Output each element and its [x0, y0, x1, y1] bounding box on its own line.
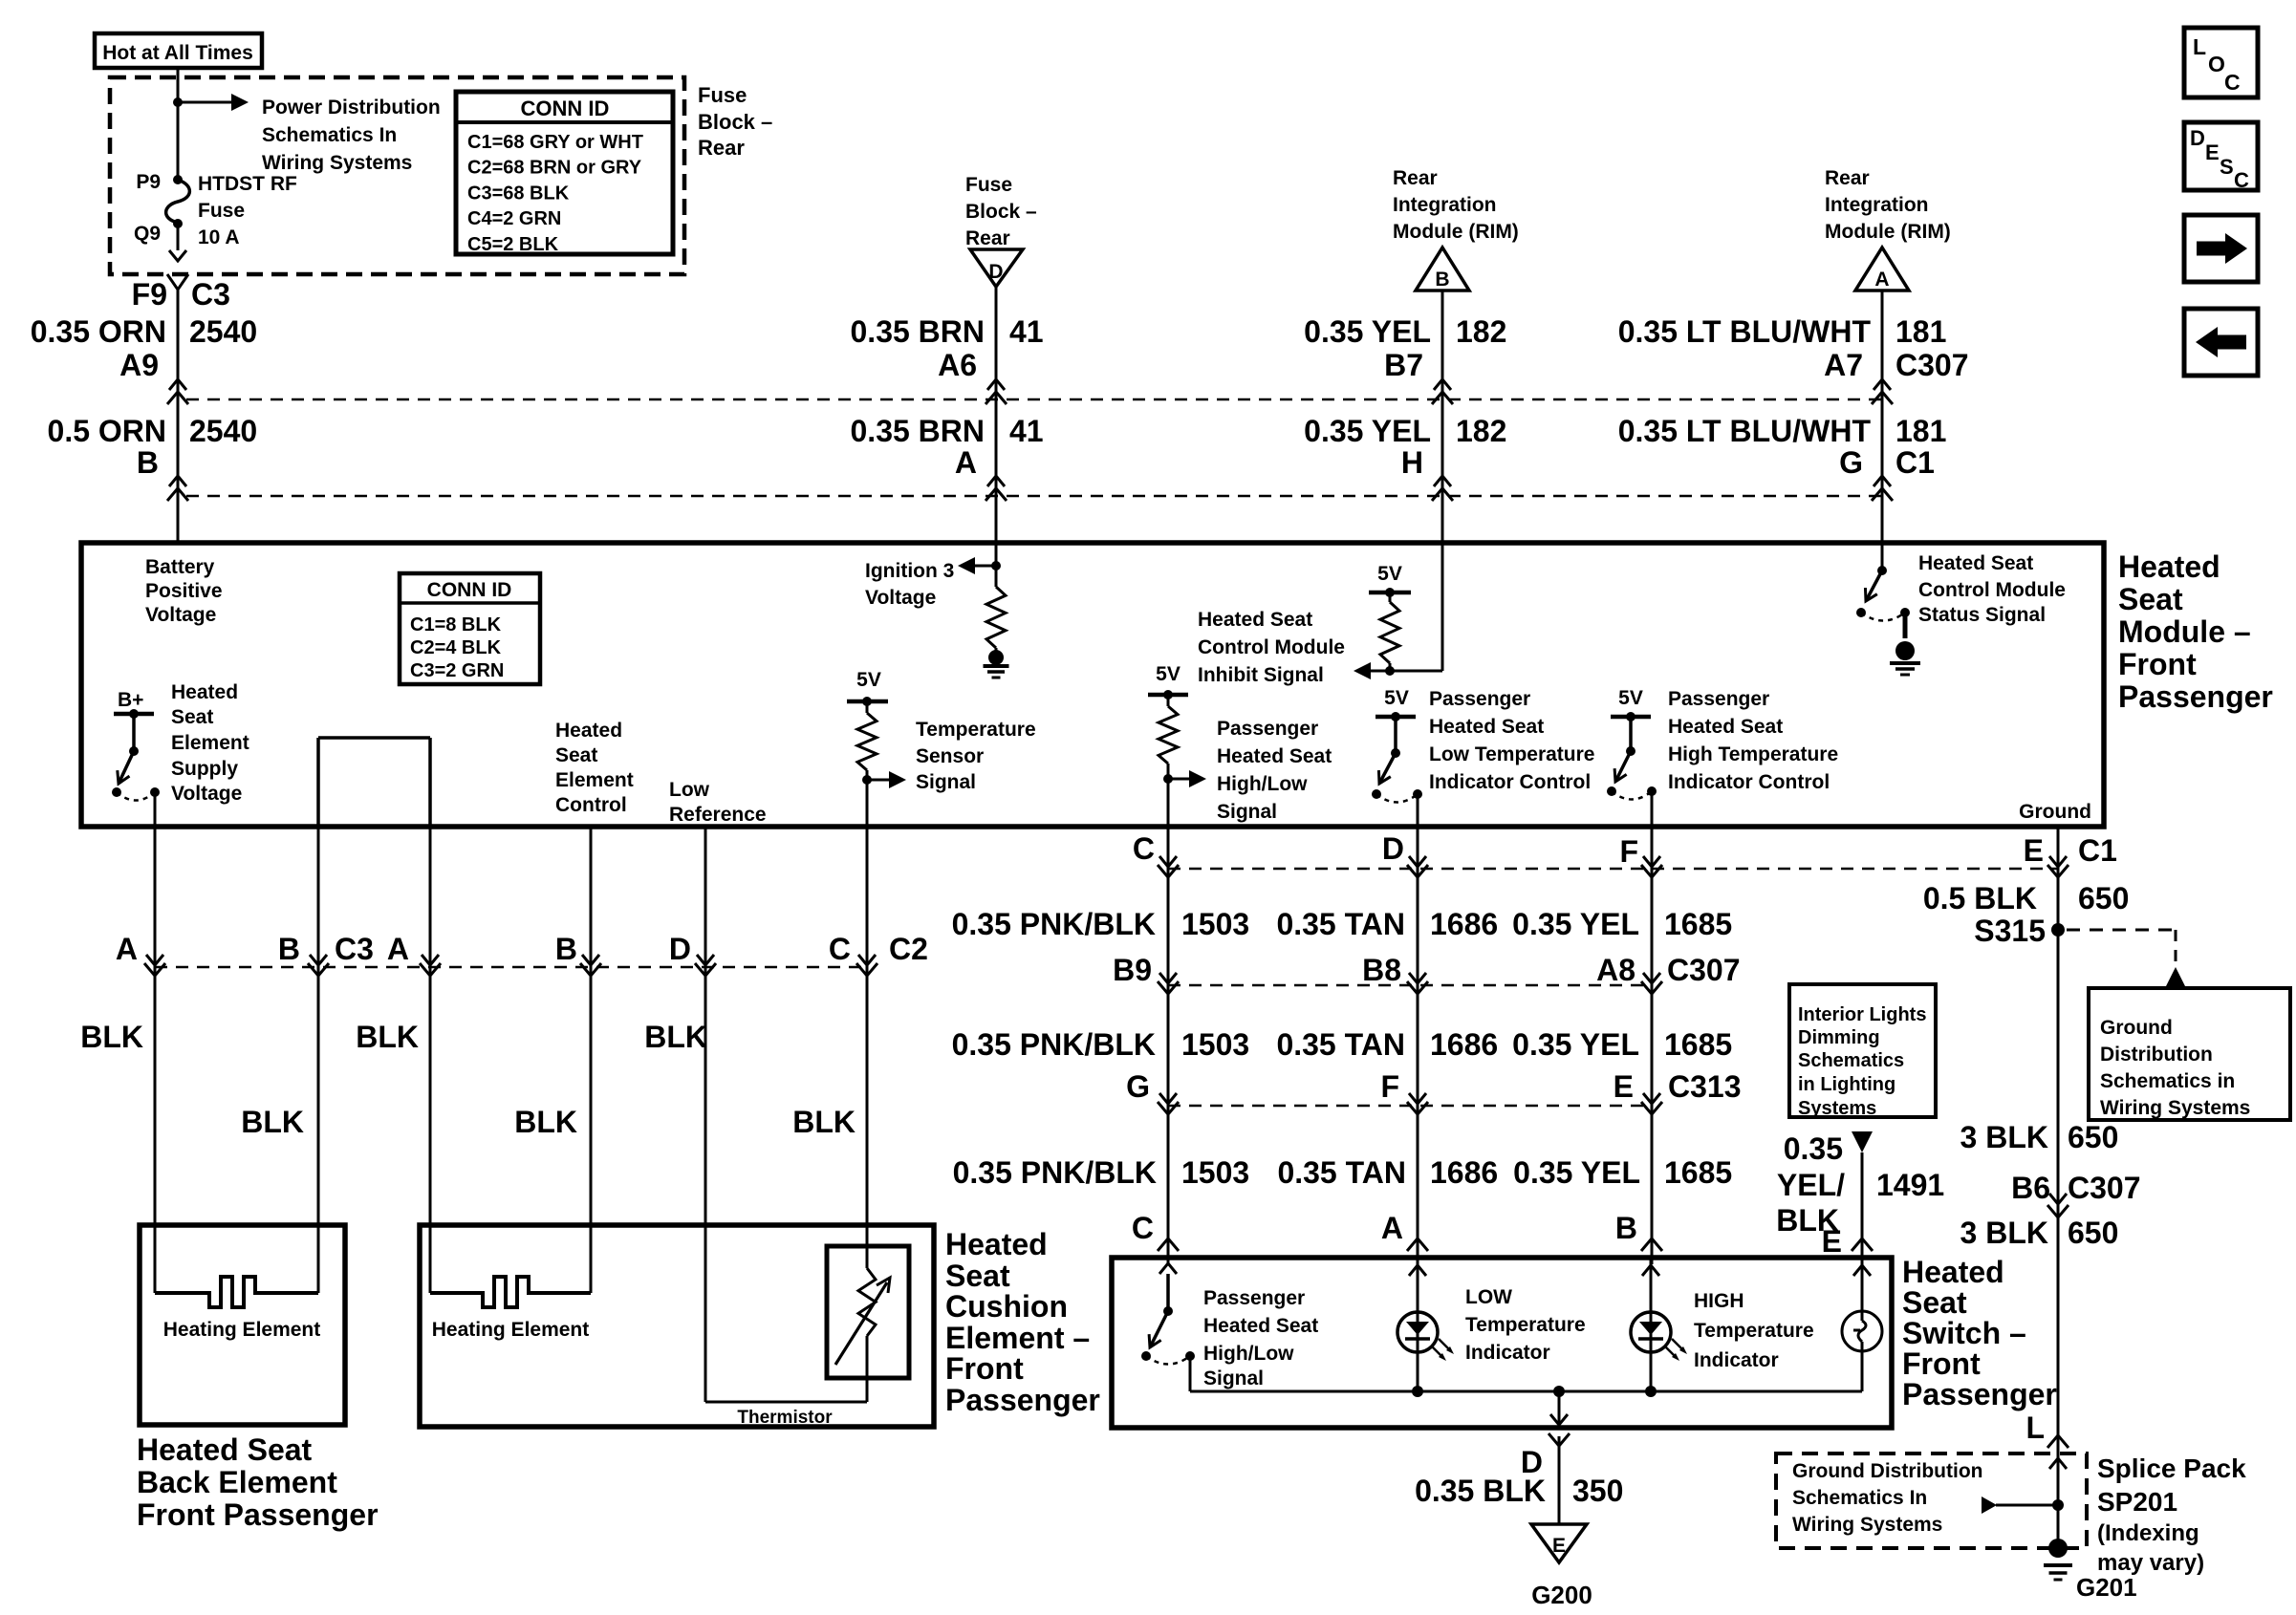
- svg-text:HIGH: HIGH: [1694, 1290, 1744, 1312]
- svg-text:(Indexing: (Indexing: [2097, 1520, 2199, 1546]
- svg-text:B9: B9: [1113, 953, 1152, 987]
- svg-text:Cushion: Cushion: [945, 1289, 1068, 1324]
- svg-text:Temperature: Temperature: [1465, 1314, 1586, 1336]
- svg-text:Rear: Rear: [1393, 167, 1438, 189]
- svg-text:C: C: [2224, 70, 2241, 95]
- svg-text:Inhibit Signal: Inhibit Signal: [1198, 664, 1324, 686]
- svg-text:0.35 LT BLU/WHT: 0.35 LT BLU/WHT: [1618, 314, 1872, 349]
- svg-text:BLK: BLK: [514, 1105, 577, 1139]
- svg-text:Heated Seat: Heated Seat: [1918, 552, 2033, 574]
- svg-text:1503: 1503: [1181, 907, 1249, 941]
- svg-text:G: G: [1839, 445, 1863, 480]
- svg-text:0.35 TAN: 0.35 TAN: [1276, 1027, 1405, 1062]
- svg-text:41: 41: [1009, 314, 1044, 349]
- svg-text:Temperature: Temperature: [916, 719, 1036, 741]
- svg-text:Fuse: Fuse: [698, 83, 747, 107]
- svg-text:Interior Lights: Interior Lights: [1798, 1004, 1926, 1025]
- svg-text:Heating Element: Heating Element: [432, 1319, 590, 1341]
- svg-text:Control Module: Control Module: [1198, 636, 1345, 658]
- svg-text:0.35 TAN: 0.35 TAN: [1276, 907, 1405, 941]
- svg-text:Signal: Signal: [916, 771, 976, 793]
- svg-text:182: 182: [1456, 314, 1506, 349]
- svg-text:5V: 5V: [856, 669, 881, 691]
- svg-text:Ignition 3: Ignition 3: [865, 560, 954, 582]
- svg-text:Voltage: Voltage: [145, 604, 216, 626]
- svg-text:Seat: Seat: [171, 706, 213, 728]
- svg-text:SP201: SP201: [2097, 1487, 2177, 1517]
- svg-text:BLK: BLK: [644, 1020, 707, 1054]
- svg-text:A9: A9: [119, 348, 159, 382]
- svg-text:Indicator: Indicator: [1465, 1342, 1550, 1364]
- svg-text:C3=68 BLK: C3=68 BLK: [467, 183, 570, 204]
- svg-text:5V: 5V: [1618, 687, 1643, 709]
- svg-text:Front: Front: [945, 1351, 1024, 1386]
- svg-text:0.35 YEL: 0.35 YEL: [1304, 314, 1431, 349]
- svg-text:Ground Distribution: Ground Distribution: [1792, 1460, 1982, 1482]
- svg-text:Schematics In: Schematics In: [262, 124, 397, 146]
- svg-text:High Temperature: High Temperature: [1668, 743, 1838, 765]
- svg-text:Distribution: Distribution: [2100, 1044, 2213, 1066]
- svg-text:Indicator Control: Indicator Control: [1668, 771, 1830, 793]
- svg-text:Low Temperature: Low Temperature: [1429, 743, 1594, 765]
- svg-text:B: B: [137, 445, 159, 480]
- svg-text:41: 41: [1009, 414, 1044, 448]
- svg-text:LOW: LOW: [1465, 1286, 1512, 1308]
- svg-text:Seat: Seat: [945, 1259, 1010, 1293]
- svg-text:CONN ID: CONN ID: [427, 579, 512, 601]
- svg-text:C: C: [2234, 168, 2249, 192]
- svg-text:0.35 BRN: 0.35 BRN: [851, 414, 986, 448]
- svg-text:Front: Front: [2118, 647, 2197, 681]
- svg-text:Switch –: Switch –: [1902, 1316, 2026, 1350]
- svg-text:Element: Element: [555, 769, 634, 791]
- svg-text:High/Low: High/Low: [1217, 773, 1308, 795]
- svg-text:High/Low: High/Low: [1203, 1343, 1294, 1365]
- svg-text:Voltage: Voltage: [865, 587, 936, 609]
- svg-text:B: B: [555, 932, 577, 966]
- svg-text:D: D: [988, 261, 1003, 283]
- svg-text:B: B: [1615, 1211, 1637, 1245]
- svg-text:350: 350: [1572, 1474, 1623, 1508]
- svg-text:B6: B6: [2011, 1171, 2050, 1205]
- svg-text:5V: 5V: [1384, 687, 1409, 709]
- svg-text:0.5 BLK: 0.5 BLK: [1923, 881, 2037, 915]
- svg-text:C: C: [1133, 831, 1155, 866]
- svg-text:A: A: [116, 932, 138, 966]
- svg-text:Sensor: Sensor: [916, 745, 984, 767]
- svg-text:E: E: [1552, 1535, 1566, 1557]
- svg-text:0.35 BRN: 0.35 BRN: [851, 314, 986, 349]
- svg-text:Heated: Heated: [555, 720, 622, 742]
- svg-text:182: 182: [1456, 414, 1506, 448]
- svg-text:0.35 BLK: 0.35 BLK: [1415, 1474, 1546, 1508]
- svg-text:Battery: Battery: [145, 556, 215, 578]
- svg-text:C313: C313: [1668, 1069, 1742, 1104]
- svg-text:Positive: Positive: [145, 580, 223, 602]
- svg-text:10 A: 10 A: [198, 226, 240, 248]
- svg-text:BLK: BLK: [80, 1020, 143, 1054]
- svg-text:Heated Seat: Heated Seat: [1203, 1315, 1318, 1337]
- svg-text:Systems: Systems: [1798, 1098, 1876, 1119]
- svg-text:3 BLK: 3 BLK: [1960, 1216, 2048, 1250]
- svg-text:C: C: [829, 932, 851, 966]
- svg-text:0.35 LT BLU/WHT: 0.35 LT BLU/WHT: [1618, 414, 1872, 448]
- svg-text:Block –: Block –: [698, 110, 772, 134]
- svg-text:Low: Low: [669, 779, 710, 801]
- svg-text:E: E: [1614, 1069, 1634, 1104]
- svg-text:Passenger: Passenger: [1668, 688, 1769, 710]
- svg-text:B: B: [278, 932, 300, 966]
- svg-text:A: A: [387, 932, 409, 966]
- svg-text:Fuse: Fuse: [198, 200, 245, 222]
- svg-text:Front: Front: [1902, 1346, 1981, 1381]
- svg-text:D: D: [1382, 831, 1404, 866]
- svg-text:Module (RIM): Module (RIM): [1825, 221, 1951, 243]
- svg-text:2540: 2540: [189, 414, 257, 448]
- svg-text:Seat: Seat: [555, 744, 597, 766]
- svg-text:0.35 TAN: 0.35 TAN: [1277, 1155, 1406, 1190]
- svg-text:Passenger: Passenger: [2118, 679, 2273, 714]
- svg-text:5V: 5V: [1156, 663, 1180, 685]
- svg-text:BLK: BLK: [356, 1020, 419, 1054]
- svg-text:A6: A6: [938, 348, 977, 382]
- svg-text:Control Module: Control Module: [1918, 579, 2066, 601]
- svg-text:0.5 ORN: 0.5 ORN: [48, 414, 166, 448]
- svg-text:Heated: Heated: [945, 1227, 1048, 1261]
- svg-text:B7: B7: [1384, 348, 1423, 382]
- svg-text:Dimming: Dimming: [1798, 1027, 1880, 1048]
- svg-text:650: 650: [2068, 1120, 2118, 1154]
- svg-text:2540: 2540: [189, 314, 257, 349]
- svg-text:650: 650: [2078, 881, 2129, 915]
- svg-text:Heated Seat: Heated Seat: [1429, 716, 1544, 738]
- svg-text:Status Signal: Status Signal: [1918, 604, 2046, 626]
- svg-text:C1=8 BLK: C1=8 BLK: [410, 614, 502, 635]
- svg-text:Rear: Rear: [1825, 167, 1870, 189]
- svg-text:C1: C1: [1895, 445, 1935, 480]
- svg-text:0.35 PNK/BLK: 0.35 PNK/BLK: [952, 1027, 1156, 1062]
- svg-text:Heated Seat: Heated Seat: [1668, 716, 1783, 738]
- svg-text:A: A: [1874, 269, 1889, 291]
- svg-text:5V: 5V: [1377, 563, 1402, 585]
- svg-text:H: H: [1401, 445, 1423, 480]
- svg-text:0.35 YEL: 0.35 YEL: [1513, 1155, 1640, 1190]
- svg-text:Wiring Systems: Wiring Systems: [262, 152, 412, 174]
- svg-text:A7: A7: [1824, 348, 1863, 382]
- svg-text:C3: C3: [191, 277, 230, 312]
- svg-text:Schematics In: Schematics In: [1792, 1487, 1927, 1509]
- svg-text:D: D: [669, 932, 691, 966]
- svg-text:CONN ID: CONN ID: [521, 97, 610, 120]
- svg-text:Module –: Module –: [2118, 614, 2251, 649]
- svg-text:Heated: Heated: [2118, 549, 2220, 584]
- svg-text:Passenger: Passenger: [1902, 1377, 2057, 1411]
- svg-text:A: A: [1381, 1211, 1403, 1245]
- svg-text:0.35 YEL: 0.35 YEL: [1512, 1027, 1639, 1062]
- svg-text:C2=4 BLK: C2=4 BLK: [410, 637, 502, 658]
- svg-text:0.35 ORN: 0.35 ORN: [31, 314, 166, 349]
- svg-text:C: C: [1132, 1211, 1154, 1245]
- svg-text:Ground: Ground: [2019, 801, 2091, 823]
- svg-text:Signal: Signal: [1217, 801, 1277, 823]
- svg-text:Integration: Integration: [1393, 194, 1497, 216]
- svg-text:C5=2 BLK: C5=2 BLK: [467, 234, 559, 255]
- svg-text:1491: 1491: [1876, 1168, 1944, 1202]
- svg-text:Indicator: Indicator: [1694, 1349, 1779, 1371]
- svg-text:1685: 1685: [1664, 907, 1732, 941]
- svg-text:Schematics in: Schematics in: [2100, 1070, 2235, 1092]
- svg-text:Heated Seat: Heated Seat: [137, 1432, 313, 1467]
- svg-text:F9: F9: [132, 277, 167, 312]
- svg-text:C2: C2: [889, 932, 928, 966]
- svg-text:Back Element: Back Element: [137, 1465, 337, 1499]
- svg-text:Front Passenger: Front Passenger: [137, 1497, 379, 1532]
- svg-text:0.35 PNK/BLK: 0.35 PNK/BLK: [952, 907, 1156, 941]
- svg-text:may vary): may vary): [2097, 1550, 2204, 1576]
- svg-text:BLK: BLK: [241, 1105, 304, 1139]
- svg-text:181: 181: [1895, 414, 1946, 448]
- svg-text:HTDST RF: HTDST RF: [198, 173, 297, 195]
- svg-text:C307: C307: [1895, 348, 1969, 382]
- svg-text:1686: 1686: [1430, 907, 1498, 941]
- svg-text:Heated Seat: Heated Seat: [1217, 745, 1332, 767]
- svg-text:A8: A8: [1596, 953, 1635, 987]
- svg-text:Indicator Control: Indicator Control: [1429, 771, 1591, 793]
- svg-text:1685: 1685: [1664, 1027, 1732, 1062]
- svg-text:Rear: Rear: [965, 227, 1010, 249]
- svg-text:C3: C3: [335, 932, 374, 966]
- svg-text:Block –: Block –: [965, 201, 1037, 223]
- svg-text:C2=68 BRN or GRY: C2=68 BRN or GRY: [467, 158, 642, 179]
- svg-text:1686: 1686: [1430, 1027, 1498, 1062]
- svg-text:P9: P9: [136, 171, 161, 193]
- svg-text:F: F: [1619, 834, 1638, 869]
- svg-text:Element: Element: [171, 732, 249, 754]
- svg-text:Thermistor: Thermistor: [737, 1408, 833, 1428]
- svg-text:G: G: [1126, 1069, 1150, 1104]
- svg-text:1503: 1503: [1181, 1155, 1249, 1190]
- svg-text:in Lighting: in Lighting: [1798, 1074, 1895, 1095]
- svg-text:Wiring Systems: Wiring Systems: [2100, 1097, 2250, 1119]
- svg-text:L: L: [2193, 34, 2206, 59]
- svg-text:Heated: Heated: [171, 681, 238, 703]
- svg-text:Signal: Signal: [1203, 1367, 1264, 1389]
- svg-text:1686: 1686: [1430, 1155, 1498, 1190]
- svg-text:Ground: Ground: [2100, 1017, 2173, 1039]
- svg-text:Wiring Systems: Wiring Systems: [1792, 1514, 1942, 1536]
- svg-text:Heated: Heated: [1902, 1255, 2004, 1289]
- svg-text:C307: C307: [1667, 953, 1741, 987]
- svg-text:Heating Element: Heating Element: [163, 1319, 321, 1341]
- svg-text:Passenger: Passenger: [1429, 688, 1530, 710]
- svg-text:0.35 YEL: 0.35 YEL: [1304, 414, 1431, 448]
- svg-text:C1: C1: [2078, 833, 2117, 868]
- svg-text:Reference: Reference: [669, 804, 767, 826]
- svg-text:Module (RIM): Module (RIM): [1393, 221, 1519, 243]
- svg-text:S: S: [2220, 155, 2234, 179]
- svg-text:YEL/: YEL/: [1777, 1168, 1845, 1202]
- svg-text:Heated Seat: Heated Seat: [1198, 609, 1312, 631]
- svg-text:B8: B8: [1362, 953, 1401, 987]
- svg-text:A: A: [955, 445, 977, 480]
- svg-text:O: O: [2208, 52, 2225, 76]
- svg-text:E: E: [1822, 1224, 1842, 1259]
- svg-text:Hot at All Times: Hot at All Times: [102, 42, 253, 64]
- svg-text:Integration: Integration: [1825, 194, 1929, 216]
- svg-text:Passenger: Passenger: [1203, 1287, 1305, 1309]
- svg-text:Fuse: Fuse: [965, 174, 1012, 196]
- svg-text:650: 650: [2068, 1216, 2118, 1250]
- svg-text:C4=2 GRN: C4=2 GRN: [467, 208, 561, 229]
- svg-text:Seat: Seat: [1902, 1285, 1967, 1320]
- svg-text:Power Distribution: Power Distribution: [262, 97, 441, 118]
- svg-text:1685: 1685: [1664, 1155, 1732, 1190]
- svg-text:0.35: 0.35: [1784, 1131, 1843, 1166]
- svg-text:S315: S315: [1974, 914, 2046, 948]
- svg-text:0.35 PNK/BLK: 0.35 PNK/BLK: [953, 1155, 1157, 1190]
- svg-text:BLK: BLK: [792, 1105, 856, 1139]
- svg-text:Element –: Element –: [945, 1321, 1090, 1355]
- svg-text:G201: G201: [2076, 1573, 2137, 1602]
- svg-text:B+: B+: [118, 689, 143, 711]
- svg-text:C3=2 GRN: C3=2 GRN: [410, 660, 504, 681]
- svg-text:Splice Pack: Splice Pack: [2097, 1453, 2246, 1483]
- svg-text:D: D: [2190, 126, 2205, 150]
- svg-text:Seat: Seat: [2118, 582, 2183, 616]
- svg-text:E: E: [2024, 833, 2044, 868]
- svg-text:181: 181: [1895, 314, 1946, 349]
- svg-text:3 BLK: 3 BLK: [1960, 1120, 2048, 1154]
- svg-text:Passenger: Passenger: [945, 1383, 1100, 1417]
- svg-text:Control: Control: [555, 794, 627, 816]
- svg-text:Supply: Supply: [171, 758, 238, 780]
- svg-text:Rear: Rear: [698, 136, 745, 160]
- svg-text:Schematics: Schematics: [1798, 1050, 1904, 1071]
- svg-text:C1=68 GRY or WHT: C1=68 GRY or WHT: [467, 132, 643, 153]
- svg-text:B: B: [1435, 269, 1449, 291]
- svg-text:L: L: [2025, 1410, 2045, 1445]
- svg-text:F: F: [1380, 1069, 1399, 1104]
- svg-text:0.35 YEL: 0.35 YEL: [1512, 907, 1639, 941]
- svg-text:Temperature: Temperature: [1694, 1320, 1814, 1342]
- svg-text:C307: C307: [2068, 1171, 2141, 1205]
- svg-text:1503: 1503: [1181, 1027, 1249, 1062]
- svg-text:Passenger: Passenger: [1217, 718, 1318, 740]
- svg-text:Q9: Q9: [134, 223, 161, 245]
- svg-text:G200: G200: [1531, 1581, 1592, 1609]
- svg-text:E: E: [2205, 140, 2220, 164]
- svg-text:Voltage: Voltage: [171, 783, 242, 805]
